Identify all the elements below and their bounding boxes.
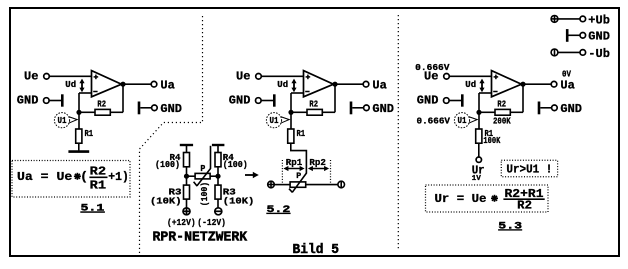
svg-text:0V: 0V	[562, 69, 571, 79]
svg-text:Ur>U1 !: Ur>U1 !	[506, 163, 552, 177]
svg-text:R1: R1	[90, 178, 107, 192]
svg-text:(100): (100)	[200, 182, 210, 207]
svg-text:1V: 1V	[472, 175, 482, 183]
svg-text:0.666V: 0.666V	[417, 117, 451, 127]
svg-text:R2: R2	[517, 199, 532, 213]
svg-text:200K: 200K	[493, 117, 511, 127]
svg-text:(10K): (10K)	[150, 197, 182, 207]
svg-text:P: P	[200, 164, 206, 174]
svg-text:(-12V): (-12V)	[197, 218, 226, 228]
svg-text:0.666V: 0.666V	[415, 63, 450, 73]
svg-text:Bild 5: Bild 5	[293, 242, 340, 258]
svg-text:-Ub: -Ub	[588, 47, 610, 61]
svg-text:+1): +1)	[108, 170, 129, 184]
svg-text:(100): (100)	[155, 160, 180, 170]
svg-text:(100): (100)	[223, 160, 248, 170]
svg-text:RPR-NETZWERK: RPR-NETZWERK	[153, 229, 248, 245]
svg-text:+Ub: +Ub	[588, 14, 610, 28]
svg-text:P: P	[296, 172, 301, 181]
svg-text:Ur = Ue: Ur = Ue	[435, 192, 487, 206]
svg-text:100K: 100K	[483, 136, 500, 146]
svg-text:R2: R2	[90, 165, 107, 179]
svg-text:(+12V): (+12V)	[167, 218, 196, 228]
svg-text:(10K): (10K)	[223, 197, 255, 207]
svg-text:GND: GND	[588, 30, 610, 44]
